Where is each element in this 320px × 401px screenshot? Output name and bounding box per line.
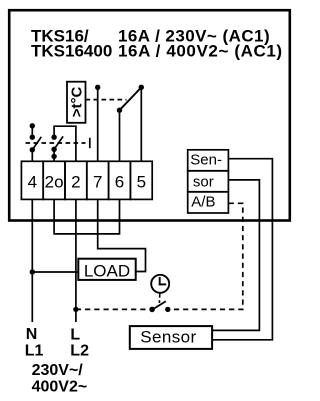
svg-text:6: 6 — [115, 173, 124, 192]
wire Sen row to sensor (lower) — [212, 159, 272, 340]
svg-text:4: 4 — [28, 173, 37, 192]
svg-text:TKS16400: TKS16400 — [31, 41, 112, 60]
dashed mechanical link of relay contacts — [26, 138, 90, 148]
terminal block — [21, 161, 152, 199]
switch lever between terminals 6 and 5 — [117, 85, 144, 162]
Sensor box — [130, 326, 212, 349]
svg-text:16A / 400V2~ (AC1): 16A / 400V2~ (AC1) — [118, 41, 283, 60]
terminal 2o label — [45, 173, 64, 192]
label L1 — [25, 342, 44, 359]
svg-text:L2: L2 — [70, 342, 89, 359]
thermostat element >t°C — [67, 82, 86, 123]
node junction on L wire for timer line — [73, 307, 78, 312]
terminal 5 label — [137, 173, 146, 192]
wire N terminal 4 down — [31, 199, 33, 322]
jumper wire terminal 2o to terminal 6 — [54, 199, 119, 234]
node junction on N wire — [30, 269, 79, 274]
terminal 7 label — [93, 173, 102, 192]
label TKS16400 — [31, 41, 112, 60]
contact (switch) above terminal 4 — [30, 123, 42, 161]
label L — [70, 326, 80, 343]
wire terminal 7 up with node dot — [95, 85, 100, 162]
timer switch contact — [149, 301, 170, 312]
svg-text:230V~/: 230V~/ — [32, 362, 84, 379]
label N — [26, 326, 38, 343]
svg-text:400V2~: 400V2~ — [32, 378, 88, 395]
svg-text:5: 5 — [137, 173, 146, 192]
LOAD box — [78, 259, 135, 281]
svg-text:sor: sor — [193, 173, 214, 190]
svg-text:2o: 2o — [45, 173, 64, 192]
label 16A / 400V2~ (AC1) — [118, 41, 283, 60]
svg-text:>t°C: >t°C — [68, 86, 85, 117]
svg-text:LOAD: LOAD — [84, 261, 130, 280]
svg-text:N: N — [26, 326, 38, 343]
label L2 — [70, 342, 89, 359]
label 16A / 230V~ (AC1) — [118, 27, 270, 46]
wire terminal 7 to LOAD right side — [98, 199, 146, 271]
sensor terminal box Sen/sor/A/B — [188, 150, 229, 213]
contact (switch) above terminal 2o — [51, 135, 63, 162]
svg-text:7: 7 — [93, 173, 102, 192]
svg-text:Sen-: Sen- — [190, 151, 222, 168]
terminal 4 label — [28, 173, 37, 192]
label 230V~/ — [32, 362, 84, 379]
dashed wire A/B row to timer switch — [168, 203, 243, 309]
svg-text:A/B: A/B — [191, 194, 215, 211]
terminal 2 label — [71, 173, 80, 192]
label TKS16/ — [31, 27, 89, 46]
label 400V2~ — [32, 378, 88, 395]
wire sor row to sensor (upper) — [212, 180, 259, 331]
dashed timer wire from L — [76, 308, 152, 310]
svg-text:2: 2 — [71, 173, 80, 192]
clock (timer) symbol — [151, 275, 169, 303]
dashed control link thermostat to contact 6-5 — [86, 99, 127, 101]
svg-text:Sensor: Sensor — [140, 327, 196, 346]
device outline box — [9, 10, 290, 220]
wire terminal 2 up and over to contact 2o — [54, 126, 76, 161]
terminal 6 label — [115, 173, 124, 192]
svg-text:L1: L1 — [25, 342, 44, 359]
wire L terminal 2 down — [75, 199, 77, 322]
svg-text:L: L — [70, 326, 80, 343]
